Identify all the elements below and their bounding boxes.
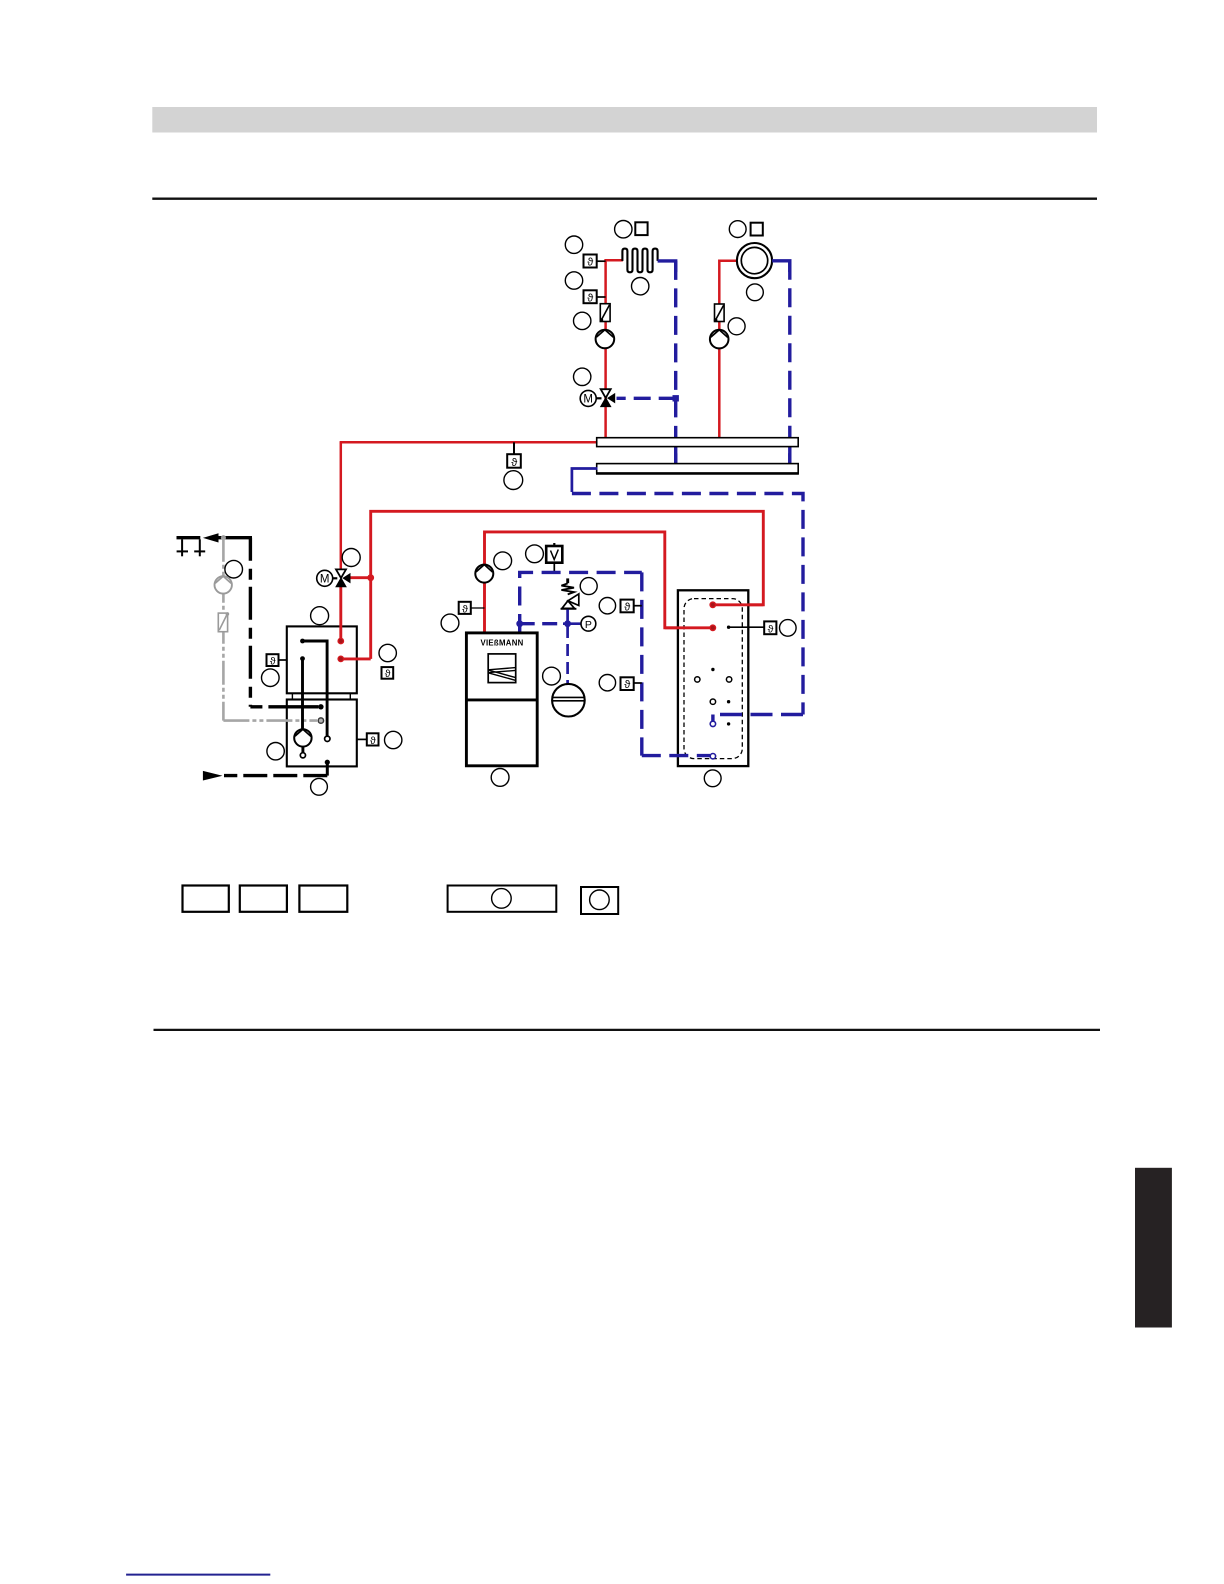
node: boiler1 dashed line port [318,704,323,709]
callout circle [504,471,523,490]
port: small dot [727,700,730,703]
wire: blue dashed into tank bottom port [642,754,710,757]
port: red top [710,602,715,607]
wire: blue dashed into tank mid port [713,715,803,722]
tank inner dashed [684,599,742,759]
svg-text:ϑ: ϑ [511,457,517,469]
wire: black dashed drain line [224,774,327,777]
wire: blue dashed branch to mixer HC1 [617,397,676,400]
side tab black [1135,1168,1172,1328]
callout circle [565,272,582,289]
callout circle near gray pump [225,560,243,578]
wire: red supply HC2 [719,261,737,438]
wire: red into top port (over tank) [715,603,764,606]
pump HC1 [596,330,615,349]
wire: blue return HC1 [658,261,676,272]
wire: red down to mixer 2 [340,442,343,570]
port: small dot [711,668,714,671]
node: drain port [325,760,330,765]
svg-text:VIEßMANN: VIEßMANN [480,638,523,647]
wire: blue dashed manometer branch [520,622,563,625]
wire: red feed to manifold [340,441,598,444]
square marker HC2 [751,223,763,236]
wire: blue return HC2 [772,261,790,272]
wire: blue dashed safety line boiler2 [520,572,642,633]
callout circle below boiler1 [311,778,328,795]
wire: red elbow into boiler1 right port [343,657,371,660]
collector connection symbol [177,538,206,557]
wire: red into second port (over tank) [665,626,715,629]
svg-text:ϑ: ϑ [587,257,593,269]
port: open mid [710,699,715,704]
callout circle left of boiler1 top [311,607,329,625]
sensor circle storage upper [599,598,615,614]
sensor circle storage lower [599,675,615,691]
tank sensor dot + line [727,626,764,629]
header gray bar [152,107,1097,133]
pump boiler2 [475,565,493,583]
wire: red supply HC1 [606,260,623,438]
legend box 1 [183,886,229,912]
pump HC2 [710,330,729,349]
callout circle below boiler2 [491,769,509,787]
expansion vessel [552,684,585,717]
port: blue bottom [710,754,715,759]
callout circle below tank [704,770,721,787]
svg-text:ϑ: ϑ [624,679,630,691]
mixing valve M HC1 [596,389,615,406]
port: open left [695,677,700,682]
boiler1 lower box [287,700,357,767]
wire: black internal to pump [301,659,304,730]
wire: blue dashed boiler2 return from tank [640,572,643,755]
check valve HC2 [714,304,724,322]
callout circle [728,318,745,335]
header rule [152,197,1097,199]
sensor box on manifold feed [507,442,521,469]
node: red port [338,638,343,643]
boiler1 upper box [287,626,357,693]
node: red port [338,656,343,661]
svg-text:ϑ: ϑ [768,623,774,635]
motor circle M2 [317,570,333,586]
node: blue junction [673,395,679,401]
callout circle [574,368,591,385]
callout circle right of pump [494,552,512,570]
callout circle [574,312,591,329]
port: small dot [727,722,730,725]
motor circle M HC1 [580,390,596,406]
port: open right [726,677,731,682]
pump boiler1 [294,729,311,746]
sensor box HC1 supply [584,255,606,269]
heat exchanger icon [488,654,516,683]
legend box 2 [240,886,287,912]
svg-text:M: M [583,394,593,406]
heating coil HC1 [622,249,657,273]
manifold lower bar [597,464,799,473]
footer blue line [126,1574,270,1576]
wire: drain down [326,762,329,775]
node: ring below pump [300,753,305,758]
svg-text:ϑ: ϑ [624,602,630,614]
sensor box boiler1 lower right [357,733,379,747]
sensor box boiler1 left [267,654,287,667]
callout circle [441,614,459,632]
wire: gray dash-dot-dot line [222,538,225,721]
wire: navy return from lower manifold [572,469,598,493]
sensor box tank right [764,621,776,635]
tank body [678,590,748,766]
sensor box right-upper of boiler1 [382,667,394,680]
svg-text:ϑ: ϑ [587,292,593,304]
svg-text:M: M [320,574,330,586]
safety valve [561,578,579,621]
callout circle [747,284,764,301]
arrow drain (points right) [203,771,223,781]
svg-text:ϑ: ϑ [462,603,468,615]
sensor box storage upper [621,600,642,614]
section rule bottom [154,1029,1101,1031]
wire: blue dashed return to tank [572,494,803,715]
manometer P [581,616,596,631]
manifold upper bar [597,438,799,447]
callout circle left of vent [526,545,544,563]
port: red second [710,625,715,630]
callout circle below coil [632,278,649,295]
callout circle right of boiler1 [385,731,402,748]
callout circle tank right [780,620,797,637]
svg-text:ϑ: ϑ [385,668,391,680]
boiler2 body [466,633,537,766]
connector feet [292,693,350,699]
callout circle left [262,669,280,687]
node: blue junction left [516,620,523,627]
radiator HC2 [737,243,772,278]
wire: red junction to tank top port [350,511,764,659]
wire: black internal top [303,641,328,736]
wire: black thick to collector [219,536,253,539]
callout circle above M2 [342,549,360,567]
arrow to collector (left) [203,533,219,542]
svg-text:ϑ: ϑ [270,655,276,667]
check valve HC1 [600,304,610,322]
legend box 3 [299,886,347,912]
wire: black long-dashed down to boiler1 [249,538,252,707]
port: blue return [710,721,715,726]
sensor box HC1 second [584,290,606,304]
callout circle [615,221,632,238]
callout circle right of safety valve [580,578,597,595]
node: ring end of internal line [325,736,330,741]
node: port [300,639,305,644]
callout circle [729,221,746,238]
wire: below pump [301,747,304,753]
mixing valve M2 [332,569,350,586]
wire: blue dashed to expansion vessel [566,626,569,684]
node: blue junction [564,620,571,627]
callout circle [565,236,582,253]
square marker HC1 [635,222,647,235]
legend wide box with circle [448,886,557,912]
wire: red mixer2 to boiler1 port [339,586,342,642]
sensor box boiler2 supply [459,602,485,616]
callout circle lower-left [267,743,284,760]
legend small box with circle [581,887,618,914]
gray pump [215,576,232,593]
svg-text:P: P [585,619,592,631]
node: gray line port (ring) [318,718,323,723]
node: port [300,656,305,661]
svg-text:ϑ: ϑ [370,735,376,747]
node: gray junction [221,535,226,540]
wire: red boiler2 to tank [485,532,715,633]
callout circle left of vessel [543,667,561,685]
gray check valve [218,612,229,631]
node: red junction [367,574,374,581]
callout circle right-upper of boiler1 [379,644,396,661]
air vent box V [546,543,562,572]
sensor box storage lower [621,677,642,691]
